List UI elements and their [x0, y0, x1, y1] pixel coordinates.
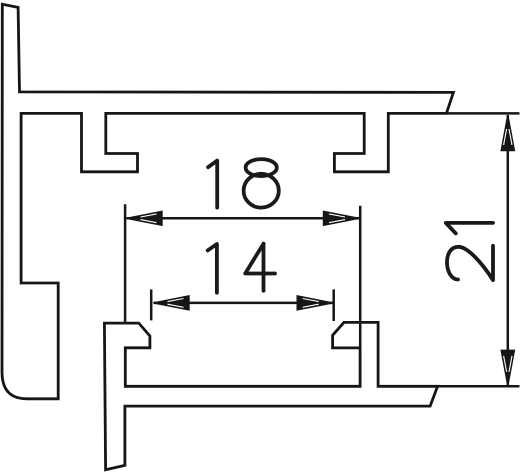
dimension line 21: [507, 115, 510, 386]
arrow 14 left: [154, 296, 190, 310]
dimension text 14: [208, 244, 275, 293]
arrow 21 bottom: [501, 350, 514, 386]
profile piece 1: top flange with left leg and hooks: [2, 4, 453, 399]
dimension text 18: [208, 159, 279, 208]
arrow 18 right: [324, 211, 360, 225]
extension line 18 right: [359, 206, 362, 347]
extension line 18 left: [124, 204, 127, 322]
extension line 14 left: [150, 289, 153, 320]
profile piece 2: bottom channel with fin: [104, 322, 437, 469]
arrow 14 right: [297, 296, 333, 310]
extension line 14 right: [332, 289, 335, 321]
arrow 21 top: [501, 115, 514, 151]
dimension line 14: [154, 302, 333, 305]
extension line 21 bottom: [438, 385, 520, 388]
dimension line 18: [127, 217, 360, 220]
dimension text 21 (rotated): [446, 223, 493, 280]
arrow 18 left: [127, 211, 163, 225]
extension line 21 top: [446, 112, 519, 115]
